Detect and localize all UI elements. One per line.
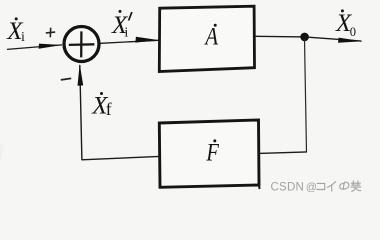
svg-text:@: @ [306, 181, 317, 193]
arrowhead feedback into summing junction [78, 64, 84, 86]
wire feedback right horizontal [259, 152, 307, 154]
watermark CSDN [271, 181, 317, 193]
dot over F [213, 139, 216, 142]
F corner ink hook [258, 185, 261, 190]
plus inside summing junction [69, 31, 95, 57]
svg-text:i: i [21, 30, 25, 45]
node (junction dot) [300, 33, 309, 42]
watermark hiragana no [343, 182, 344, 189]
arrowhead into A [135, 37, 158, 43]
wire A to node [256, 35, 306, 38]
watermark kanji yume [351, 181, 361, 191]
svg-text:F: F [206, 139, 220, 166]
watermark katakana i [327, 182, 335, 188]
arrowhead input [39, 44, 62, 49]
wire summing junction to block A [101, 40, 159, 43]
wire node to output arrow [305, 37, 362, 41]
svg-text:CSDN: CSDN [271, 181, 305, 193]
dot over Xi [15, 17, 18, 20]
block F (feedback) [159, 120, 259, 187]
svg-text:f: f [106, 99, 112, 119]
svg-text:A: A [204, 23, 219, 51]
wire F left to corner [82, 156, 160, 159]
scan smudge left edge [0, 144, 4, 164]
dot over Xi' [119, 10, 122, 13]
minus sign at feedback input [61, 78, 71, 80]
dot over Xo [341, 9, 344, 12]
block A (amplifier) [159, 6, 254, 71]
wire feedback vertical up to summing junction [80, 65, 82, 160]
plus sign at summing input [46, 28, 55, 38]
summing junction circle [64, 27, 99, 62]
dot over A [214, 24, 217, 27]
watermark katakana ko [317, 183, 325, 189]
svg-text:i: i [124, 26, 128, 41]
prime of Xi' [129, 12, 132, 20]
dot over Xf [100, 92, 103, 95]
wire node down to feedback [305, 39, 307, 152]
svg-text:0: 0 [350, 25, 356, 39]
arrowhead output [338, 38, 363, 43]
wire input Xi [7, 45, 62, 50]
